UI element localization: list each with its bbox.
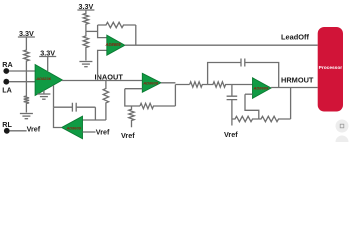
power rail 3.3V (in-amp supply) [39, 49, 56, 72]
resistor R6 (INAOUT to integrator) [103, 81, 108, 121]
op-amp U1 AD8236 in-amp [35, 65, 62, 96]
resistor R12 (stage3 feedback 2) [259, 116, 291, 121]
wire stage2 output [161, 83, 190, 85]
svg-text:AD8609: AD8609 [66, 125, 82, 130]
svg-text:Vref: Vref [27, 124, 41, 133]
wire LeadOff output [125, 44, 318, 46]
wire stage2 -IN bracket [125, 89, 140, 106]
svg-text:AD8609: AD8609 [253, 86, 269, 91]
op-amp U4 AD8609 gain stage [142, 73, 161, 92]
node LeadOff label [281, 33, 309, 42]
wire RL to Vref [9, 130, 26, 132]
capacitor C3 (to Vref) [227, 96, 238, 99]
resistor R2 (bias to ground) [24, 82, 29, 113]
terminal RA [3, 68, 9, 74]
wire stage2 -IN [125, 88, 143, 90]
resistor R4 (divider bottom) [83, 31, 88, 60]
wire divider node to comparator -IN [86, 30, 98, 32]
svg-text:LeadOff: LeadOff [281, 33, 309, 42]
node RA label [2, 60, 12, 69]
terminal LA [3, 79, 9, 85]
wire comparator -IN [98, 25, 107, 38]
node overlay-button [336, 120, 349, 149]
svg-text:AD8236: AD8236 [35, 76, 51, 81]
wire stage3 feedback to output [290, 88, 292, 120]
resistor R1 (RA pull-up) [24, 44, 29, 71]
wire AD8236 REF pin to integrator output [53, 85, 55, 107]
svg-text:AD8609: AD8609 [105, 42, 122, 47]
wire cap left to REF node [54, 106, 73, 108]
op-amp U5 AD8609 output stage [253, 78, 272, 99]
node Vref label (stage2) [121, 131, 135, 140]
svg-text:Vref: Vref [121, 131, 135, 140]
op-amp U3 AD8609 integrator [62, 116, 83, 139]
wire integrator -IN [83, 119, 106, 121]
wire cap right [76, 106, 95, 108]
node Vref label (LPF) [224, 130, 238, 139]
svg-text:Vref: Vref [96, 128, 110, 137]
node Vref label (integrator) [96, 128, 110, 137]
wire bias column RA to LA [25, 71, 27, 82]
svg-text:AD8609: AD8609 [142, 81, 158, 86]
wire stage3 -IN [245, 93, 253, 95]
wire integrator +IN to Vref [83, 131, 96, 133]
wire stage2 feedback to output [174, 85, 176, 107]
svg-text:LA: LA [2, 86, 12, 95]
power rail 3.3V (comparator divider) [77, 2, 94, 13]
power rail 3.3V (RA bias) [18, 29, 35, 44]
node HRMOUT label [281, 76, 314, 85]
node RL label [2, 120, 12, 129]
terminal RL [4, 128, 10, 134]
wire LPF cap loop up [208, 63, 241, 85]
resistor R10 (LPF series 2) [208, 82, 232, 87]
wire integrator output [54, 107, 62, 127]
wire LA to in-amp -IN [9, 81, 35, 83]
capacitor C1 (integrator) [72, 103, 76, 112]
wire INAOUT (in-amp output) [62, 80, 142, 82]
resistor R3 (divider top) [83, 13, 88, 31]
wire RA to in-amp +IN [9, 70, 35, 72]
svg-text:Processor: Processor [319, 65, 343, 71]
node INAOUT label [95, 72, 124, 81]
processor block [318, 27, 343, 112]
node LA label [2, 86, 12, 95]
resistor R9 (LPF series 1) [190, 82, 208, 87]
op-amp U2 AD8609 lead-off comparator [105, 35, 125, 55]
ground (bias network) [20, 114, 33, 119]
svg-text:HRMOUT: HRMOUT [281, 76, 314, 85]
ground (in-amp) [37, 90, 50, 99]
ground (divider) [79, 62, 92, 67]
capacitor C2 (LPF feedback) [241, 59, 245, 67]
wire LPF to +IN [232, 84, 253, 86]
wire comparator +IN from INAOUT [98, 50, 107, 80]
resistor R5 (comparator feedback) [98, 22, 136, 27]
svg-text:Vref: Vref [224, 130, 238, 139]
wire stage3 -IN bracket [245, 94, 259, 119]
resistor R11 (stage3 feedback 1) [232, 116, 259, 121]
wire LPF cap loop down [245, 63, 279, 88]
resistor R8 (stage2 gain to Vref) [129, 106, 134, 127]
wire integrator -IN to cap [94, 107, 96, 120]
svg-text:INAOUT: INAOUT [95, 72, 124, 81]
svg-text:RA: RA [2, 60, 12, 69]
wire feedback to output node [135, 25, 137, 45]
svg-text:RL: RL [2, 120, 12, 129]
wire +IN cap down [231, 85, 233, 97]
wire cap to Vref node [231, 100, 233, 126]
wire HRMOUT output [271, 87, 318, 89]
resistor R7 (stage2 feedback) [140, 103, 175, 108]
node Vref label (RL) [27, 124, 41, 133]
